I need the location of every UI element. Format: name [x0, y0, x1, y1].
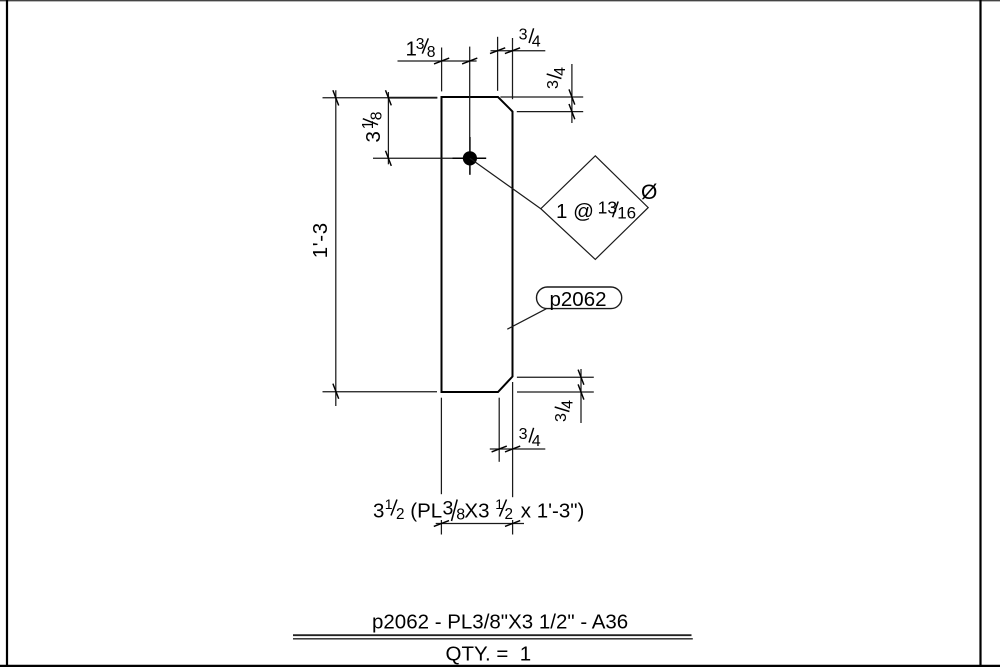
part label stadium p2062 [507, 287, 621, 329]
svg-text:1 @: 1 @ [556, 200, 594, 223]
svg-text:QTY. = 1: QTY. = 1 [446, 642, 532, 665]
svg-text:3: 3 [545, 80, 562, 89]
svg-text:3: 3 [373, 499, 384, 522]
dimension D8: 3 1/2 overall width [436, 398, 524, 535]
svg-text:X3: X3 [464, 499, 489, 522]
svg-text:4: 4 [552, 67, 569, 76]
svg-text:4: 4 [532, 33, 541, 50]
title underline double rule [293, 634, 692, 636]
svg-text:(PL: (PL [410, 499, 442, 522]
svg-text:16: 16 [617, 203, 636, 222]
svg-text:2: 2 [505, 506, 514, 523]
border left [6, 0, 8, 667]
svg-text:2: 2 [396, 506, 405, 523]
stadium leader [507, 309, 546, 330]
svg-text:8: 8 [369, 111, 386, 120]
svg-text:3: 3 [519, 426, 528, 443]
svg-text:8: 8 [427, 44, 436, 61]
border right [979, 0, 981, 667]
dimension D1: 1 3/8 (left edge to hole) [398, 47, 477, 137]
svg-text:3: 3 [553, 413, 570, 422]
dimension D3: 3/4 top chamfer height (rotated) [500, 64, 583, 123]
svg-text:p2062: p2062 [550, 288, 607, 311]
svg-text:1'-3: 1'-3 [309, 222, 332, 258]
hole H1 [453, 137, 487, 175]
svg-text:Ø: Ø [641, 181, 657, 204]
diamond callout [541, 156, 648, 260]
note: 3 1/2 (PL3/8X3 1/2 x 1'-3") [373, 496, 584, 524]
svg-text:4: 4 [560, 400, 577, 409]
svg-text:3: 3 [362, 131, 385, 142]
svg-text:p2062 - PL3/8"X3 1/2" - A36: p2062 - PL3/8"X3 1/2" - A36 [372, 611, 628, 634]
diamond text: 1 @ 13/16 [556, 198, 636, 223]
dimension D4: 3 1/8 top edge to hole (rotated) [323, 92, 453, 164]
border bottom [0, 665, 1000, 667]
svg-text:3: 3 [443, 498, 454, 520]
svg-text:3: 3 [519, 26, 528, 43]
dimension D6: 3/4 bottom chamfer width [490, 382, 546, 535]
dimension D5: 1'-3 overall height (rotated) [323, 90, 438, 406]
dimension D2: 3/4 top chamfer width [491, 37, 546, 99]
svg-text:1: 1 [385, 496, 393, 512]
svg-text:x 1'-3"): x 1'-3") [521, 499, 585, 522]
svg-text:4: 4 [532, 433, 541, 450]
border top [0, 0, 1000, 2]
hole leader to diamond [470, 158, 541, 208]
dimension D7: 3/4 bottom chamfer height (rotated) [517, 369, 594, 423]
plate outline p2062 [442, 97, 513, 392]
